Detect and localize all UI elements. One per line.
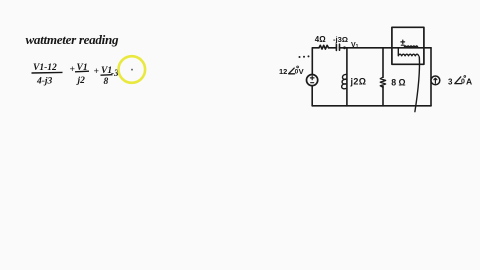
- wire: left vertical branch (source branch): [311, 48, 313, 106]
- svg-text:wattmeter reading: wattmeter reading: [26, 32, 119, 47]
- voltage source VS1 circle: [307, 75, 318, 86]
- svg-text:V: V: [299, 67, 304, 76]
- svg-text:3: 3: [448, 77, 453, 86]
- svg-text:+: +: [70, 65, 75, 75]
- voltage source VS1 polarity marks: [310, 76, 314, 83]
- svg-text:8 Ω: 8 Ω: [391, 78, 405, 88]
- svg-text:4-j3: 4-j3: [36, 77, 53, 87]
- inductor L1 branch wire: [346, 48, 348, 106]
- svg-text:4Ω: 4Ω: [315, 35, 326, 44]
- svg-text:+: +: [94, 67, 99, 77]
- current source IS1 circle: [431, 76, 440, 85]
- svg-text:j2: j2: [76, 76, 86, 86]
- yellow highlight cursor circle: [119, 56, 146, 83]
- svg-text:V1: V1: [351, 42, 359, 50]
- inductor L1 j2ohm coil loops: [342, 74, 347, 88]
- dots near source: [299, 55, 310, 58]
- wire: top wire between resistor and capacitor: [329, 47, 337, 49]
- wattmeter current coil bumps on top wire: [404, 46, 418, 48]
- label 12 angle 0 V source value: [279, 66, 304, 76]
- equation fraction 2: V1/j2: [75, 63, 89, 86]
- equation fraction 3: V1/8: [101, 66, 113, 87]
- svg-text:V1-12: V1-12: [33, 63, 57, 73]
- pen dot inside cursor: [131, 69, 133, 71]
- current source IS1 arrow: [434, 78, 437, 83]
- resistor R2 branch wire: [382, 48, 384, 106]
- wire: top wire from capacitor to right vertical: [340, 47, 432, 49]
- wattmeter voltage coil L-shape with bumps: [398, 48, 418, 55]
- label 3 angle 0 A current source value: [448, 76, 472, 87]
- wattmeter W box: [392, 27, 424, 64]
- svg-text:0: 0: [461, 78, 465, 85]
- svg-text:12: 12: [279, 67, 287, 76]
- wire: top wire left segment: [313, 47, 320, 49]
- node V1 junction dot: [343, 46, 346, 49]
- svg-text:j2Ω: j2Ω: [350, 76, 367, 86]
- wire: bottom wire: [312, 105, 431, 107]
- svg-text:-j3Ω: -j3Ω: [333, 35, 348, 44]
- wattmeter plus-minus terminal mark: [401, 40, 405, 45]
- capacitor C1 -j3ohm plates: [336, 44, 339, 50]
- wattmeter voltage coil hanging lead wire: [415, 57, 420, 112]
- svg-text:A: A: [466, 77, 472, 87]
- resistor R1 4ohm zigzag on top wire: [319, 45, 329, 49]
- resistor R2 8ohm zigzag: [380, 77, 385, 87]
- equation fraction 1: (V1-12)/(4-j3): [32, 63, 63, 87]
- wire: right vertical branch (current source branch): [430, 48, 432, 106]
- svg-text:8: 8: [104, 77, 109, 87]
